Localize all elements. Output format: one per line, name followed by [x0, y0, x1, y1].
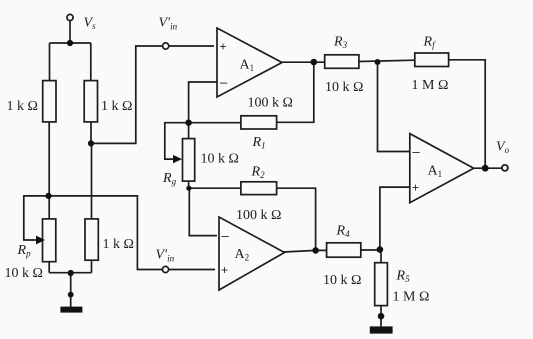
- svg-text:10 k Ω: 10 k Ω: [201, 152, 239, 167]
- svg-text:+: +: [221, 263, 228, 277]
- wire R1 left: [189, 122, 241, 124]
- terminal Vo: [502, 165, 508, 171]
- svg-text:1 k Ω: 1 k Ω: [103, 237, 134, 252]
- wire right rail upper: [90, 43, 92, 81]
- svg-text:1 M Ω: 1 M Ω: [393, 290, 430, 305]
- terminal Vs: [67, 14, 73, 20]
- ground below R5: [370, 326, 393, 333]
- node bridge bottom: [68, 270, 74, 276]
- wire A2 output to R4: [284, 250, 327, 252]
- svg-text:10 k Ω: 10 k Ω: [323, 273, 361, 288]
- resistor 1k ohm lower-right bridge arm: [85, 219, 98, 260]
- op-amp A1: [217, 28, 282, 97]
- wiper arrow of Rp: [36, 236, 45, 245]
- node left arm tap: [45, 193, 51, 199]
- resistor R5 1M body: [375, 263, 388, 306]
- node A2 output / R2 / R4: [312, 247, 319, 254]
- node R5 bottom: [378, 313, 385, 320]
- wire A1 output to R3: [282, 61, 325, 63]
- wire R1 right to A1 output junction: [277, 62, 314, 122]
- resistor 1k ohm upper-left bridge arm: [43, 81, 56, 122]
- wire R4 right junction: [361, 249, 380, 251]
- resistor R3 10k body: [325, 55, 359, 69]
- resistor 1k ohm upper-right bridge arm: [84, 81, 97, 122]
- potentiometer Rg 10k body: [183, 139, 195, 182]
- wire bridge top rail: [50, 42, 91, 44]
- node A3 output: [482, 165, 489, 172]
- op-amp A2: [219, 217, 285, 290]
- node above bridge ground: [68, 292, 74, 298]
- svg-text:1 M Ω: 1 M Ω: [412, 78, 449, 93]
- svg-text:1 k Ω: 1 k Ω: [101, 99, 132, 114]
- resistor R4 10k body: [327, 243, 361, 257]
- svg-text:–: –: [220, 75, 228, 90]
- node Rg bottom / R2: [186, 186, 191, 191]
- wire R2 left: [189, 187, 241, 189]
- wire left rail upper: [49, 43, 51, 81]
- wire R3/Rf junction to A3 inverting input: [378, 62, 410, 152]
- svg-text:1 k Ω: 1 k Ω: [7, 99, 38, 114]
- wire Rg bottom to R2 junction: [188, 181, 190, 188]
- resistor R1 100k body: [241, 116, 277, 129]
- svg-text:100 k Ω: 100 k Ω: [236, 208, 281, 223]
- wire right rail to tap junction: [90, 122, 92, 143]
- wiper arrow of Rg: [173, 155, 182, 163]
- wire A1 inverting input to R1/Rg junction: [189, 82, 217, 123]
- svg-text:100 k Ω: 100 k Ω: [248, 96, 293, 111]
- wire Rg top connection: [188, 123, 190, 139]
- svg-text:+: +: [412, 181, 419, 195]
- svg-text:–: –: [413, 144, 421, 159]
- node bridge top: [67, 40, 73, 46]
- op-amp A3: [410, 134, 474, 203]
- wire Rg wiper detour: [165, 123, 189, 159]
- svg-text:10 k Ω: 10 k Ω: [325, 80, 363, 95]
- wire Rp wiper detour: [24, 196, 49, 240]
- node A1 inverting / R1 / Rg: [185, 120, 191, 126]
- wire R2 junction down to A2 inverting input: [189, 188, 217, 235]
- wire bridge bottom rail: [49, 272, 91, 274]
- wire R3 to Rf: [359, 60, 415, 61]
- svg-text:–: –: [222, 228, 230, 243]
- potentiometer Rp 10k body: [43, 219, 56, 262]
- wire right rail lower: [91, 143, 93, 219]
- node R4 / R5 / A3 non-inverting: [377, 246, 384, 253]
- wire Vs terminal to bridge top junction: [69, 21, 71, 44]
- terminal Vin' lower: [162, 266, 168, 272]
- wire left rail middle: [48, 122, 50, 219]
- wire R4/R5 junction to A3 non-inverting input: [380, 187, 410, 250]
- terminal Vin' upper: [163, 43, 169, 49]
- wire A3 output: [473, 167, 502, 169]
- wire left arm tap to Vin- riser: [49, 196, 216, 270]
- wire R5 bottom to ground: [380, 306, 382, 327]
- svg-text:+: +: [220, 40, 227, 54]
- resistor R2 100k body: [241, 182, 277, 195]
- wire bridge bottom to ground: [70, 273, 72, 307]
- resistor Rf 1M body: [415, 53, 449, 67]
- node right arm tap: [88, 140, 94, 146]
- wire Rp bottom: [48, 262, 50, 273]
- svg-text:10 k Ω: 10 k Ω: [5, 266, 43, 281]
- ground below bridge: [60, 307, 82, 313]
- wire right arm tap to Vin+ riser: [91, 46, 214, 143]
- node R3 / Rf / A3 inverting: [375, 59, 381, 65]
- wire Rf right to output node: [449, 60, 486, 168]
- wire R5 top: [380, 250, 382, 263]
- wire R2 right to A2 output junction: [277, 188, 316, 250]
- wire lower 1k bottom: [91, 260, 93, 273]
- node A1 output / R3 / R1: [311, 59, 318, 66]
